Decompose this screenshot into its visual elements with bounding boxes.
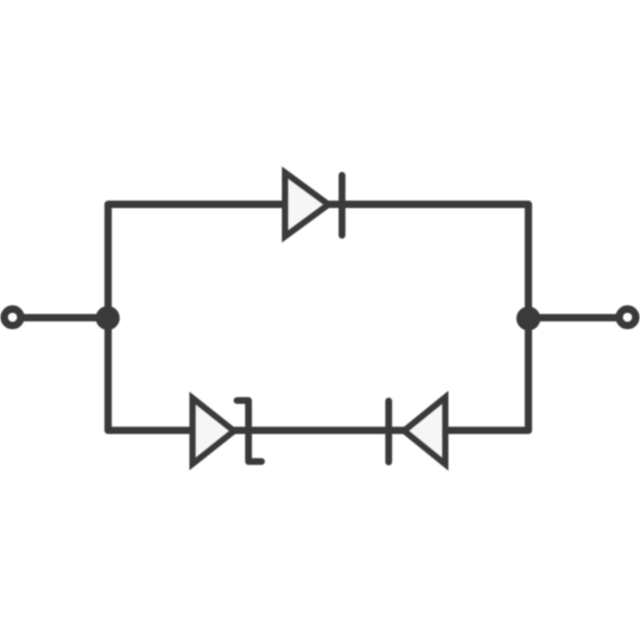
zener diode D2 bent cathode bar	[237, 401, 262, 462]
terminal 2 (right open circle)	[619, 309, 636, 326]
node A junction dot (left)	[96, 306, 120, 330]
terminal 1 (left open circle)	[4, 309, 21, 326]
wire: rectangular loop (top branch, bottom branch, left and right verticals)	[108, 204, 528, 430]
diode D3 (bottom-right branch, anode right) triangle	[404, 397, 445, 464]
wire: right lead from node B to terminal	[528, 314, 628, 321]
zener diode D2 (bottom-left branch, anode left) triangle	[193, 398, 235, 464]
diode D1 cathode bar	[339, 175, 346, 235]
diode D3 cathode bar	[385, 401, 392, 462]
node B junction dot (right)	[516, 307, 540, 331]
wire: left lead from terminal to node A	[13, 314, 109, 321]
diode D1 (top branch, anode left) triangle	[285, 173, 329, 237]
